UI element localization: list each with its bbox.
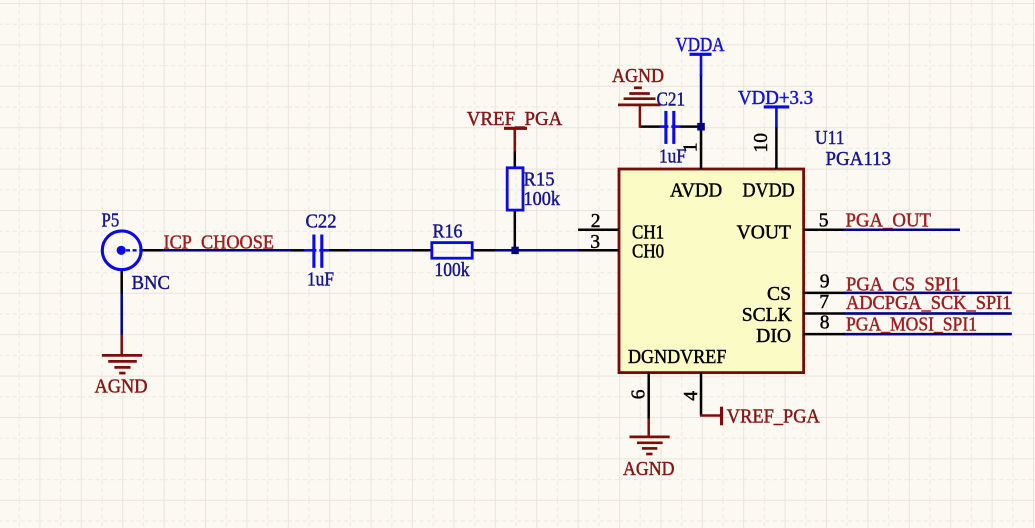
svg-text:SCLK: SCLK (742, 305, 792, 326)
svg-text:C21: C21 (657, 90, 686, 111)
svg-text:BNC: BNC (132, 273, 171, 294)
svg-text:VOUT: VOUT (737, 222, 791, 243)
svg-text:AGND: AGND (95, 377, 148, 398)
svg-text:2: 2 (591, 211, 601, 232)
svg-text:ADCPGA_SCK_SPI1: ADCPGA_SCK_SPI1 (846, 293, 1012, 314)
svg-text:9: 9 (820, 272, 830, 293)
svg-text:10: 10 (751, 133, 772, 153)
svg-text:AGND: AGND (612, 66, 664, 87)
svg-text:C22: C22 (306, 212, 337, 233)
svg-text:PGA_OUT: PGA_OUT (846, 211, 932, 232)
svg-text:DVDD: DVDD (743, 180, 795, 201)
svg-text:R16: R16 (433, 221, 463, 242)
svg-text:CH0: CH0 (632, 241, 664, 262)
svg-text:4: 4 (681, 391, 702, 401)
svg-text:DGNDVREF: DGNDVREF (628, 347, 726, 368)
svg-text:P5: P5 (102, 211, 120, 232)
svg-text:PGA113: PGA113 (826, 149, 892, 170)
svg-text:100k: 100k (435, 260, 470, 281)
svg-text:8: 8 (820, 313, 830, 334)
svg-text:DIO: DIO (756, 326, 791, 347)
svg-text:5: 5 (819, 211, 829, 232)
svg-text:7: 7 (819, 292, 829, 313)
svg-text:R15: R15 (524, 170, 555, 191)
svg-text:AGND: AGND (623, 459, 675, 480)
svg-text:100k: 100k (524, 189, 561, 210)
svg-text:AVDD: AVDD (670, 180, 722, 201)
svg-text:VREF_PGA: VREF_PGA (467, 109, 563, 130)
svg-text:U11: U11 (815, 128, 845, 149)
svg-text:1: 1 (681, 142, 702, 152)
svg-text:VDDA: VDDA (676, 35, 725, 56)
svg-text:CH1: CH1 (632, 222, 664, 243)
svg-text:VDD+3.3: VDD+3.3 (738, 88, 813, 109)
svg-text:VREF_PGA: VREF_PGA (727, 406, 820, 427)
svg-text:6: 6 (628, 389, 649, 399)
svg-text:CS: CS (767, 284, 791, 305)
svg-text:3: 3 (590, 232, 600, 253)
svg-text:PGA_MOSI_SPI1: PGA_MOSI_SPI1 (846, 315, 977, 336)
svg-text:1uF: 1uF (307, 270, 334, 291)
